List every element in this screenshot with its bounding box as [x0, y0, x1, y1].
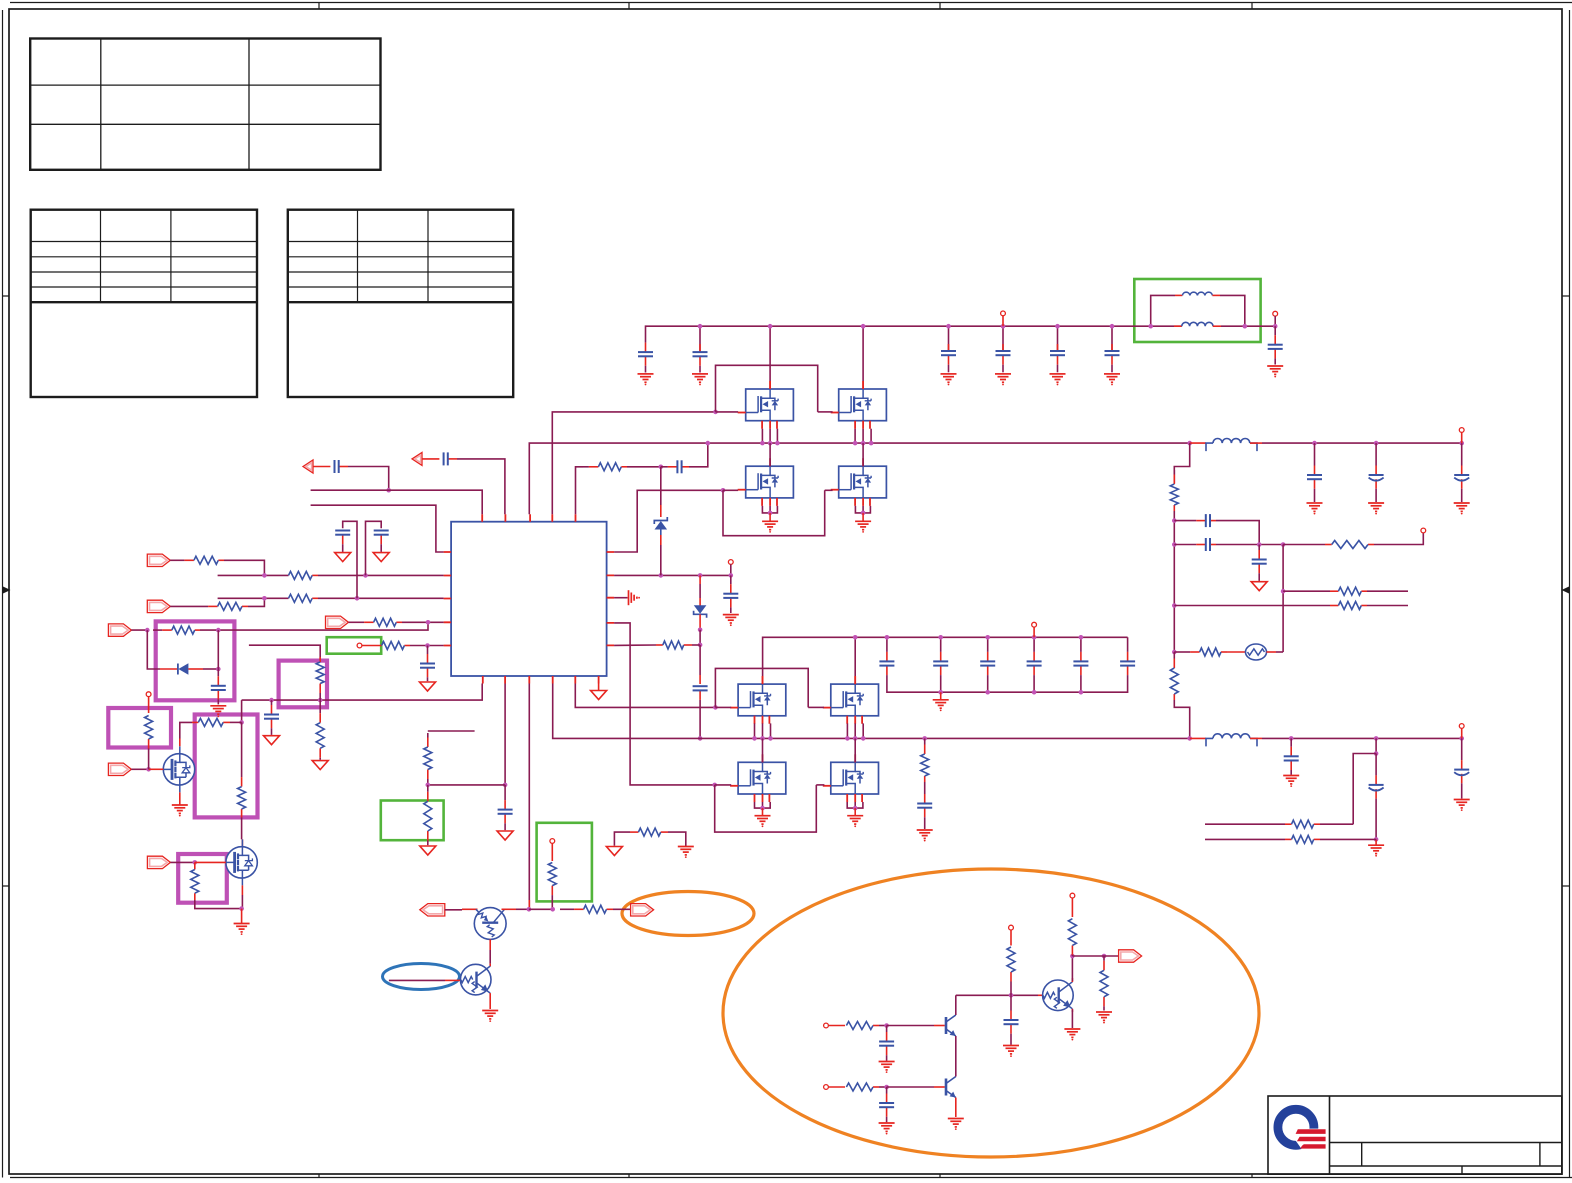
wire J10 lead: [1071, 898, 1073, 917]
wire Q11 collector red: [502, 908, 517, 910]
capacitor C16: [666, 460, 689, 473]
resistor R13: [316, 657, 324, 700]
junction busB L3: [1187, 736, 1192, 741]
wire D1 lead red: [160, 668, 178, 670]
resistor R25: [1285, 820, 1320, 828]
capacitor C7: [1268, 326, 1283, 364]
wire RT1 lead: [1227, 651, 1246, 653]
junction R27 node: [550, 907, 555, 912]
transistor Q7 pins: [730, 754, 769, 802]
wire L1b lead red: [1174, 325, 1182, 327]
wire row605: [1174, 605, 1330, 607]
junction bus A: [853, 441, 858, 446]
wire to P8: [613, 908, 631, 910]
wire P5 to Q10: [195, 861, 226, 863]
ground Q15: [1064, 1029, 1080, 1041]
wire Q10 source2: [241, 895, 243, 909]
wire gate1 detour over: [716, 365, 818, 412]
node J1: [357, 643, 362, 648]
node J6: [550, 839, 555, 844]
transistor Q5: [738, 684, 786, 716]
wire row824 a: [1205, 823, 1285, 825]
junction chain 605: [1172, 603, 1177, 608]
wire C4 drop: [1002, 326, 1004, 350]
transistor Q2: [839, 389, 887, 421]
junction chain 521: [1172, 518, 1177, 523]
wire R8 right: [692, 644, 700, 646]
resistor R17: [191, 862, 199, 900]
ground R9 left: [606, 847, 622, 856]
wire Q13-Q14: [955, 1036, 957, 1077]
port PA: [303, 460, 313, 473]
wire L1b lead left: [1151, 325, 1182, 327]
junction cap rail: [1032, 690, 1037, 695]
wire Q1 source drop: [761, 429, 763, 443]
junction zener2: [698, 628, 703, 633]
ground R9 right: [678, 847, 694, 858]
ground C37: [1003, 1046, 1019, 1058]
wire R9 right: [668, 832, 686, 846]
junction gate2: [721, 488, 726, 493]
junction gate1: [713, 410, 718, 415]
node VIN terminal: [1001, 311, 1006, 316]
wire to P9: [1098, 955, 1119, 957]
junction out1 b: [1374, 441, 1379, 446]
wire L3 lead right: [1250, 737, 1262, 739]
resistor R16: [238, 722, 246, 817]
junction source U: [768, 511, 773, 516]
capacitor C11: [374, 531, 389, 552]
junction drain line 1034.1: [1032, 635, 1037, 640]
ground C14: [264, 736, 280, 745]
junction top bus C3: [946, 324, 951, 329]
junction top bus C6: [1110, 324, 1115, 329]
resistor R28: [560, 905, 613, 913]
wire P6 to U1: [402, 621, 444, 623]
wire phase bus B: [553, 684, 1190, 739]
wire row544 c: [1374, 533, 1423, 545]
wire Q15 emit red: [1071, 1009, 1073, 1012]
wire cap rail drop: [1080, 684, 1082, 692]
junction row544 b: [1281, 542, 1286, 547]
highlight green box around node J1: [327, 637, 382, 654]
wire PB lead: [422, 458, 439, 460]
thermistor RT1: [1246, 644, 1267, 660]
wire gate3 from U1: [575, 684, 715, 708]
wire line575R: [614, 574, 731, 576]
inductor L1b: [1182, 322, 1213, 326]
wire U1 agnd: [614, 597, 627, 599]
U1 pin stubs: [444, 514, 614, 683]
wire P2 corner: [248, 598, 264, 606]
capacitor C34: [498, 785, 513, 830]
junction L1 left: [1148, 324, 1153, 329]
junction line598 a: [262, 596, 267, 601]
junction line575R b: [698, 573, 703, 578]
wire L3 lead left: [1190, 737, 1206, 739]
wire source mid: [862, 506, 864, 513]
junction line575 a: [262, 573, 267, 578]
wire C11 hook: [366, 521, 382, 575]
wire J3 lead: [730, 564, 732, 575]
ground R24: [420, 846, 436, 855]
wire out1 line: [1262, 442, 1462, 444]
wire J1 to U1: [410, 645, 444, 647]
ground C3: [941, 374, 957, 386]
wire P4 lead: [131, 768, 147, 770]
capacitor C13: [420, 646, 435, 682]
capacitor C15: [723, 575, 738, 613]
wire cap rail drop: [987, 684, 989, 692]
resistor R1: [170, 556, 224, 564]
ground R33: [1096, 1012, 1112, 1023]
transistor Q12: [460, 964, 491, 995]
wire Q9 source: [179, 792, 181, 804]
node J10: [1070, 893, 1075, 898]
resistor R26: [1285, 835, 1320, 843]
junction top bus C5: [1055, 324, 1060, 329]
wire source drop mid: [762, 723, 764, 738]
junction drain line Q6: [853, 635, 858, 640]
wire source drop mid: [770, 723, 772, 738]
junction bus B: [861, 736, 866, 741]
ground C33: [1454, 800, 1470, 811]
wire Q2 drain: [862, 326, 864, 381]
junction R30: [884, 1085, 889, 1090]
capacitor C2: [693, 344, 708, 373]
wire Q10 drain red: [241, 839, 243, 846]
wire source U mid: [847, 802, 863, 808]
wire Q12 coll red: [489, 964, 491, 967]
transistor Q3: [746, 466, 794, 498]
node VOUT3 terminal: [1459, 724, 1464, 729]
wire lineB: [311, 505, 444, 552]
wire gate2 from U1: [614, 490, 723, 552]
junction vcc bus b: [318, 698, 323, 703]
resistor R7: [583, 463, 627, 471]
wire line467 b: [627, 466, 661, 468]
wire tap left: [1353, 754, 1376, 825]
wire gate1 stub Q2: [818, 411, 833, 413]
wire RT1 lead2: [1267, 651, 1277, 653]
junction line575R a: [659, 573, 664, 578]
junction vcc bus a: [269, 698, 274, 703]
wire coll to port: [1072, 955, 1098, 957]
wire gate4 stub: [715, 784, 732, 786]
junction D1: [216, 667, 221, 672]
wire D1 lead2: [188, 668, 203, 670]
resistor R4: [289, 594, 319, 602]
wire Q4 drain: [862, 443, 864, 466]
highlight magenta box around R13: [279, 661, 327, 708]
resistor R27: [548, 863, 556, 910]
ground C11: [373, 553, 389, 562]
ground C12: [210, 706, 226, 718]
ground cap rail: [933, 692, 949, 711]
ground R13b: [312, 761, 328, 770]
port P4: [108, 763, 131, 775]
wire row605 b: [1367, 605, 1408, 607]
wire VOUT1 terminal lead: [1274, 316, 1276, 326]
wire phase bus A: [529, 443, 1189, 514]
wire line630: [200, 622, 428, 630]
wire C10 hook: [343, 521, 357, 598]
diode D2 zener: [654, 517, 667, 530]
wire Q12 base red: [445, 979, 460, 981]
wire zener1 up: [660, 467, 662, 505]
junction source U mid: [760, 806, 765, 811]
highlight orange ellipse large: [723, 869, 1259, 1157]
transistor Q1: [746, 389, 794, 421]
wire Q5 drain red: [762, 676, 764, 684]
junction bus A: [861, 441, 866, 446]
wire P7 lead: [445, 909, 462, 911]
transistor Q6: [831, 684, 879, 716]
port P5: [147, 856, 170, 868]
wire R8 to U1: [614, 644, 656, 646]
junction Q10 source: [239, 906, 244, 911]
wire zener2 up red: [699, 575, 701, 584]
junction P6: [426, 620, 431, 625]
wire Q10 gnd lead: [241, 909, 243, 923]
capacitor C28: [1174, 514, 1216, 527]
wire row544 b: [1283, 544, 1325, 546]
junction bus A: [768, 441, 773, 446]
wire out2 line: [1262, 737, 1462, 739]
junction P4: [146, 767, 151, 772]
ground Q bank1: [762, 513, 778, 533]
wire drain line mid: [763, 637, 1128, 676]
junction chain 652: [1172, 650, 1177, 655]
wire Q2 source drop: [862, 429, 864, 443]
wire P1 corner: [224, 560, 264, 575]
ground C7: [1267, 366, 1283, 378]
highlight blue ellipse: [383, 964, 460, 990]
wire source mid: [769, 506, 771, 513]
junction busA L2: [1187, 441, 1192, 446]
capacitor C32: [1369, 754, 1384, 839]
wire Q14 base red: [934, 1086, 945, 1088]
wire gate4 stub Q8: [816, 784, 824, 786]
wire source drop mid: [854, 723, 856, 738]
node J8: [824, 1085, 829, 1090]
ground Q12: [482, 1011, 498, 1022]
junction port9 node: [1102, 954, 1107, 959]
junction R8 node: [698, 643, 703, 648]
wire pin529 red: [528, 900, 530, 909]
junction P5: [193, 860, 198, 865]
resistor R20: [1330, 587, 1367, 595]
transistor Q8 pins: [823, 754, 862, 802]
wire line598 b: [318, 597, 444, 599]
ground C31: [1283, 776, 1299, 787]
junction chain 544: [1172, 542, 1177, 547]
wire row824 b: [1320, 823, 1353, 825]
wire Q6 drain red: [854, 676, 856, 684]
transistor Q5 pins: [730, 676, 769, 724]
capacitor C20: [980, 637, 995, 684]
transistor Q4 pins: [831, 458, 870, 506]
junction bus A: [869, 441, 874, 446]
node VOUT2 terminal: [1459, 428, 1464, 433]
wire C3 drop: [948, 326, 950, 350]
highlight magenta box around R15 R16: [195, 715, 258, 818]
junction top bus C4: [1001, 324, 1006, 329]
junction row591: [1281, 589, 1286, 594]
capacitor C26: [1369, 443, 1384, 502]
junction out1 a: [1312, 441, 1317, 446]
junction line467: [659, 465, 664, 470]
junction cap rail: [985, 690, 990, 695]
wire zener2 up red2: [699, 598, 701, 606]
junction gate3: [713, 705, 718, 710]
ground C2: [692, 374, 708, 386]
wire Q1 source drop: [769, 429, 771, 443]
wire Q1 drain red: [769, 381, 771, 389]
resistor R23: [1170, 652, 1178, 700]
node VOUT1 terminal: [1273, 311, 1278, 316]
ground C4: [995, 374, 1011, 386]
wire line467 a: [576, 467, 584, 514]
wire source drop mid: [846, 723, 848, 738]
wire chain v1: [1173, 511, 1175, 652]
transistor Q1 pins: [738, 381, 777, 429]
wire D1 left: [147, 630, 160, 669]
resistor R22: [1180, 648, 1227, 656]
wire row591: [1283, 590, 1330, 592]
wire line575: [218, 574, 289, 576]
wire Q12 emitter: [489, 993, 491, 1009]
capacitor C14: [264, 700, 279, 735]
resistor R15: [192, 718, 230, 726]
junction drain line 886.9: [885, 635, 890, 640]
junction out2 b: [1374, 736, 1379, 741]
highlight magenta box around R17: [178, 854, 227, 903]
wire C2 drop: [699, 326, 701, 351]
resistor R30: [846, 1083, 879, 1091]
wire Q8 drain: [854, 738, 856, 762]
node J7: [824, 1023, 829, 1028]
wire gate4 detour: [715, 785, 817, 832]
wire L1a lead right: [1212, 294, 1220, 296]
wire row839 b: [1320, 838, 1376, 840]
wire Q3 drain: [769, 443, 771, 466]
capacitor C10: [335, 531, 350, 552]
wire Q13 coll line: [956, 994, 1038, 996]
resistor R19: [1325, 541, 1374, 549]
transistor Q4: [839, 466, 887, 498]
wire row591 b: [1367, 590, 1408, 592]
capacitor C18: [879, 637, 894, 684]
ground C26: [1368, 503, 1384, 514]
wire J1 lead: [362, 645, 382, 647]
junction bus A: [760, 441, 765, 446]
wire source U: [855, 506, 870, 513]
junction bus3 a: [698, 736, 703, 741]
ground U1 bottom: [591, 684, 607, 700]
wire gate3 detour: [715, 668, 808, 707]
ground C10: [335, 553, 351, 562]
wire C17 up: [699, 645, 701, 675]
junction top bus Q2 drain: [861, 324, 866, 329]
wire top bus VIN: [646, 326, 1151, 341]
resistor R9: [630, 828, 668, 836]
junction drain line 987.7: [985, 635, 990, 640]
wire P3 lead: [131, 629, 147, 631]
resistor R31: [1007, 947, 1015, 995]
junction top bus C2: [698, 324, 703, 329]
wire Q11 emitter: [489, 939, 491, 950]
wire Q15 coll red: [1071, 978, 1073, 982]
junction source U: [861, 511, 866, 516]
wire J6 lead: [551, 843, 553, 861]
wire Q13 collector: [955, 995, 957, 1015]
wire L1b lead right: [1213, 325, 1221, 327]
transistor Q6 pins: [823, 676, 862, 724]
junction source U mid: [853, 806, 858, 811]
wire VOUT2 lead: [1461, 432, 1463, 443]
wire C6 drop: [1111, 326, 1113, 350]
transistor Q11: [474, 908, 506, 940]
wire cap rail drop: [940, 684, 942, 692]
wire gate2 detour under: [723, 490, 825, 535]
resistor R6: [382, 642, 410, 650]
wire zener1 down red: [660, 535, 662, 545]
wire Q11 coll line: [516, 908, 529, 910]
wire zener2 vert: [699, 630, 701, 645]
capacitor C24: [917, 782, 932, 829]
junction drain line 940.7: [938, 635, 943, 640]
wire J9 lead: [1010, 930, 1012, 946]
capacitor C6: [1105, 344, 1120, 372]
wire line467 d: [689, 443, 708, 467]
junction C32 tap: [1374, 751, 1379, 756]
resistor R33: [1100, 956, 1108, 1011]
wire P5 lead: [170, 861, 194, 863]
wire J4 lead: [1033, 627, 1035, 637]
ground C5: [1050, 374, 1066, 386]
wire zener2 up: [699, 584, 701, 598]
junction bus B: [752, 736, 757, 741]
inductor L3: [1206, 734, 1257, 747]
wire Q13 base red: [934, 1025, 945, 1027]
junction box2: [239, 720, 244, 725]
ground C24: [917, 830, 933, 841]
wire Q1 source drop: [776, 429, 778, 443]
capacitor C25: [1307, 443, 1322, 502]
wire gate1 stub: [716, 411, 739, 413]
wire row652 a: [1174, 651, 1180, 653]
wire VOUT3 lead: [1461, 728, 1463, 738]
wire gate4 from U1: [614, 623, 715, 785]
capacitor C36: [879, 1087, 894, 1122]
junction Q11 coll: [527, 907, 532, 912]
resistor R3: [170, 602, 248, 610]
transistor Q10: [226, 839, 257, 885]
wire zener2 down: [699, 614, 701, 630]
wire VIN terminal lead: [1002, 316, 1004, 326]
wire C5 drop: [1057, 326, 1059, 350]
wire source drop mid: [754, 723, 756, 738]
resistor R32: [1068, 919, 1076, 956]
capacitor C23: [1120, 637, 1135, 684]
junction gate4: [712, 783, 717, 788]
port P2: [147, 600, 170, 612]
wire to Q13 base: [887, 1025, 934, 1027]
wire to Q14 base: [887, 1086, 934, 1088]
wire J7 lead: [828, 1025, 845, 1027]
wire J8 lead: [828, 1086, 845, 1088]
